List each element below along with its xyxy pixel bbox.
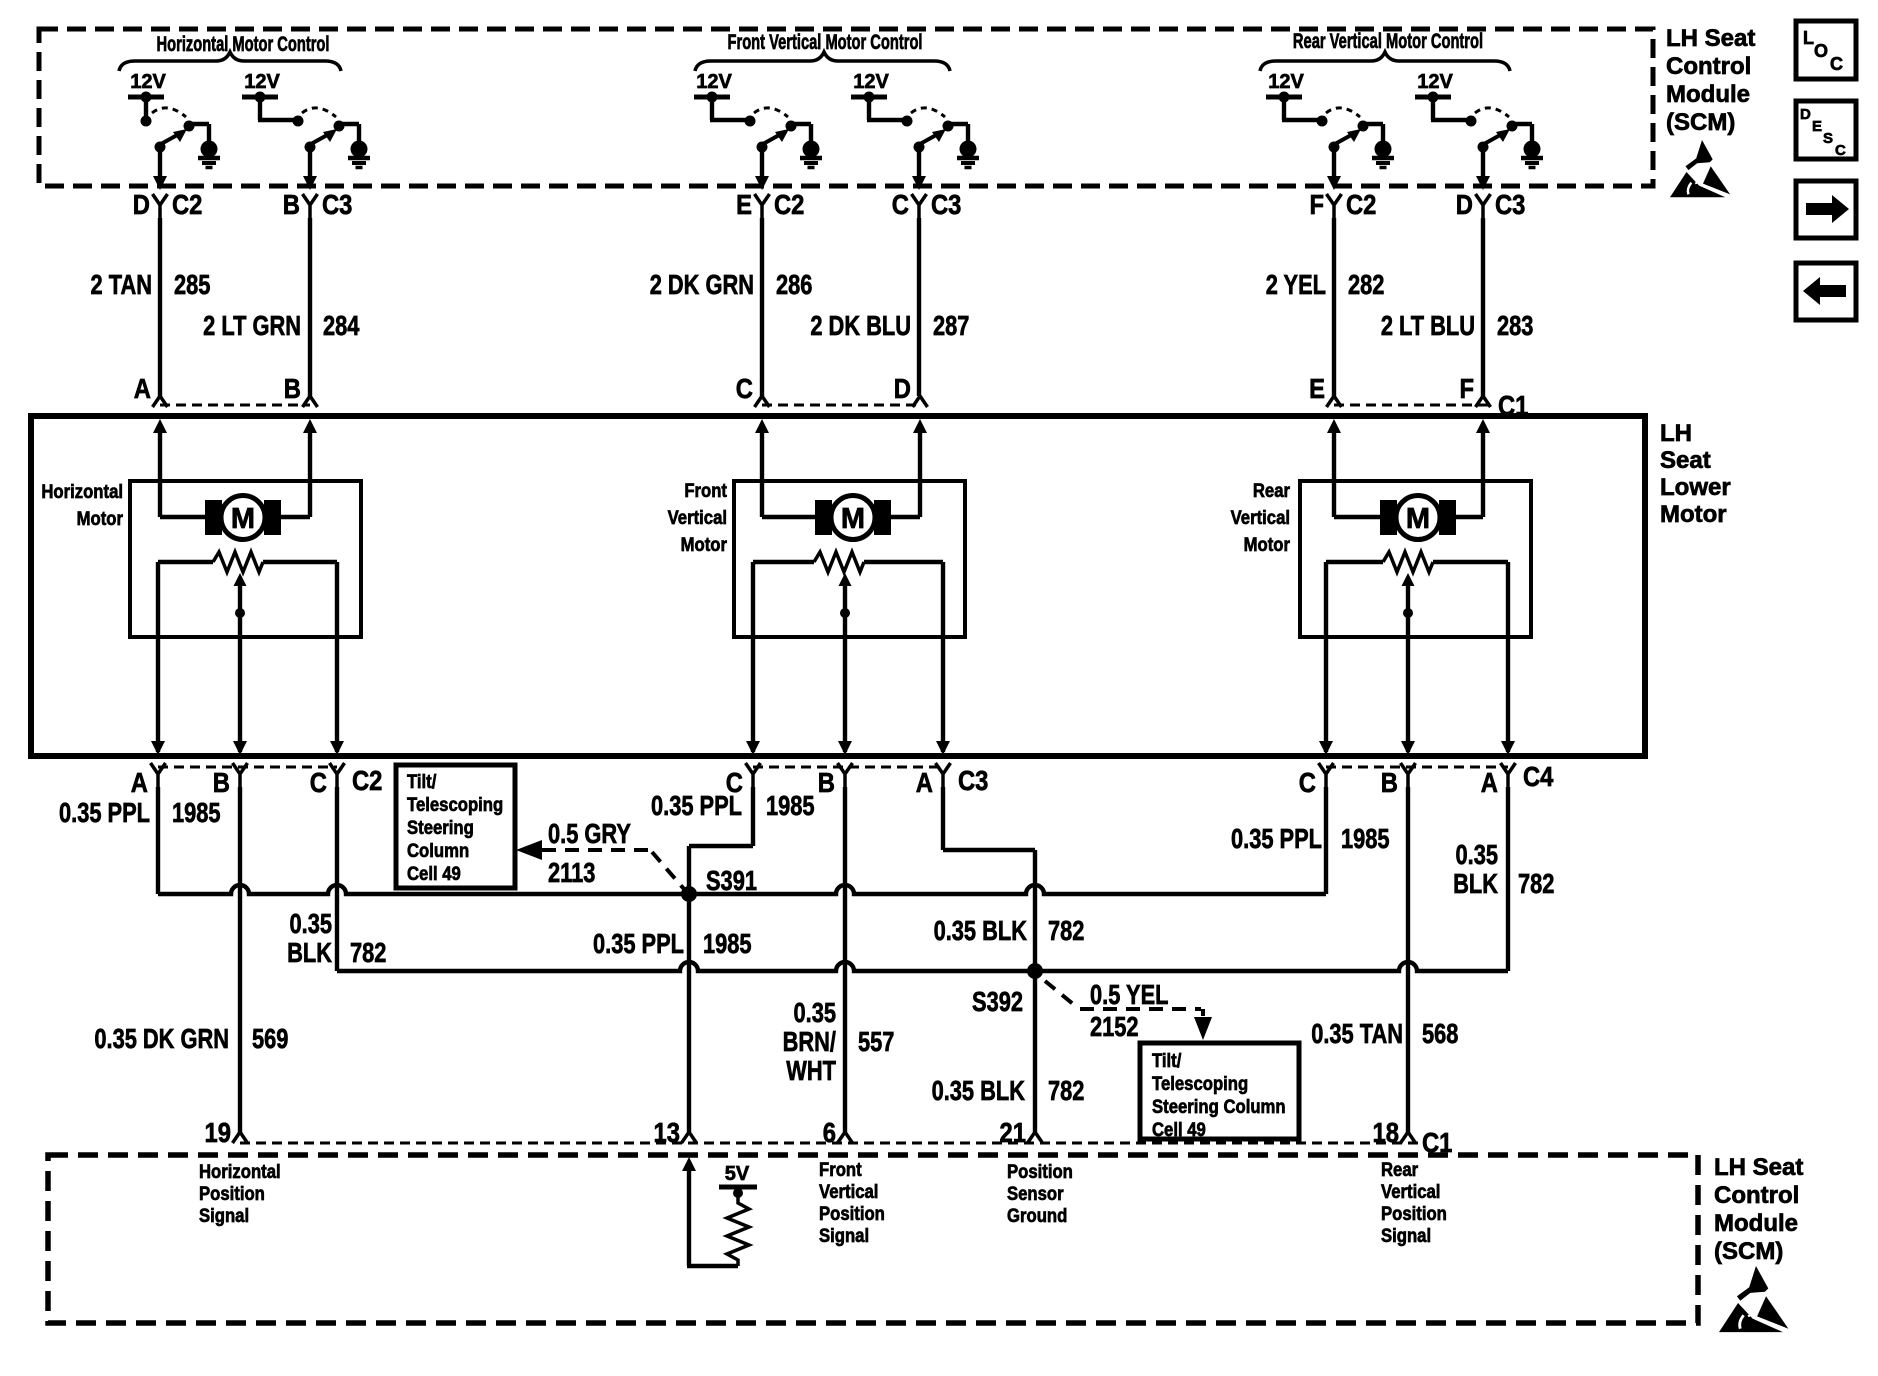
- wire 2 LT BLU 283: [1481, 218, 1485, 396]
- svg-text:2 LT BLU: 2 LT BLU: [1381, 310, 1475, 341]
- svg-text:Position: Position: [199, 1183, 265, 1204]
- svg-text:782: 782: [1048, 915, 1084, 946]
- svg-text:C: C: [736, 372, 753, 404]
- SCM pin 18: [1373, 1116, 1416, 1148]
- motor connector pin A: [1481, 763, 1516, 798]
- connector C1 dashed line top: [160, 404, 310, 407]
- 12V feed bar horizontal A: [128, 95, 164, 100]
- svg-text:C2: C2: [352, 764, 382, 796]
- svg-text:0.35 PPL: 0.35 PPL: [651, 790, 742, 821]
- svg-text:Rear: Rear: [1253, 480, 1290, 501]
- svg-text:LH: LH: [1660, 420, 1692, 447]
- svg-text:Telescoping: Telescoping: [407, 794, 503, 815]
- wire C3-C PPL jog: [751, 787, 755, 846]
- svg-text:Tilt/: Tilt/: [1152, 1050, 1181, 1071]
- wire 0.5 YEL 2152 off-page to steering column: [1045, 979, 1212, 1042]
- svg-text:(SCM): (SCM): [1714, 1238, 1783, 1265]
- svg-text:Motor: Motor: [1660, 501, 1727, 528]
- svg-text:B: B: [284, 372, 301, 404]
- svg-text:C3: C3: [322, 188, 352, 220]
- wire 0.35 DK GRN 569: [238, 787, 242, 1132]
- svg-text:Telescoping: Telescoping: [1152, 1073, 1248, 1094]
- motor connector pin E: [1309, 372, 1341, 407]
- SCM pin 21: [1000, 1116, 1043, 1148]
- splice S392: [1027, 963, 1043, 979]
- svg-text:Sensor: Sensor: [1007, 1183, 1064, 1204]
- motor connector pin B: [1381, 763, 1416, 798]
- motor horizontal motor: [205, 496, 281, 540]
- rear vertical motor sub-box: [1300, 481, 1531, 637]
- 12V feed bar front vertical A: [694, 95, 730, 100]
- svg-text:12V: 12V: [130, 71, 166, 93]
- svg-text:C3: C3: [958, 764, 988, 796]
- wire horizontal motor left supply: [158, 433, 162, 517]
- motor connector pin A: [131, 763, 166, 798]
- svg-text:2 LT GRN: 2 LT GRN: [203, 310, 301, 341]
- position sensor potentiometer rear vertical motor: [1383, 552, 1433, 572]
- svg-text:S392: S392: [972, 986, 1023, 1017]
- svg-text:Motor: Motor: [681, 534, 727, 555]
- svg-text:A: A: [916, 766, 933, 798]
- motor connector pin A: [916, 763, 951, 798]
- splice S391: [681, 886, 697, 902]
- switch horizontal B: [258, 97, 359, 190]
- label: Horizontal Motor: [41, 481, 123, 529]
- svg-text:284: 284: [323, 310, 359, 341]
- connector pin D C3: [1456, 188, 1526, 220]
- label: Front Vertical Position Signal: [819, 1159, 885, 1246]
- svg-text:283: 283: [1497, 310, 1533, 341]
- svg-text:Control: Control: [1666, 53, 1751, 80]
- label: Position Sensor Ground: [1007, 1161, 1073, 1226]
- svg-text:568: 568: [1422, 1018, 1458, 1049]
- svg-text:Vertical: Vertical: [1381, 1181, 1440, 1202]
- svg-text:Steering: Steering: [407, 817, 474, 838]
- svg-text:12V: 12V: [696, 71, 732, 93]
- wire rear vertical motor left supply: [1332, 433, 1336, 517]
- svg-text:Seat: Seat: [1660, 447, 1711, 474]
- connector pin B C3: [283, 188, 353, 220]
- svg-text:1985: 1985: [766, 790, 815, 821]
- wire S391 to pin 13: [687, 894, 691, 1132]
- svg-text:569: 569: [252, 1023, 288, 1054]
- wire 2 LT GRN 284: [308, 218, 312, 396]
- svg-text:782: 782: [350, 937, 386, 968]
- svg-text:287: 287: [933, 310, 969, 341]
- svg-text:Horizontal Motor Control: Horizontal Motor Control: [157, 32, 330, 55]
- label: Rear Vertical Motor: [1231, 480, 1290, 555]
- svg-text:E: E: [736, 188, 752, 220]
- position sensor potentiometer front vertical motor: [814, 552, 864, 572]
- motor connector pin A: [134, 372, 168, 407]
- brace: [695, 52, 950, 71]
- svg-text:B: B: [283, 188, 300, 220]
- SCM pin 19: [205, 1116, 248, 1148]
- svg-text:B: B: [1381, 766, 1398, 798]
- svg-text:C3: C3: [1495, 188, 1525, 220]
- svg-text:282: 282: [1348, 269, 1384, 300]
- svg-text:Horizontal: Horizontal: [199, 1161, 281, 1182]
- svg-text:Vertical: Vertical: [1231, 507, 1290, 528]
- svg-text:BLK: BLK: [287, 937, 332, 968]
- SCM pin 6: [823, 1116, 853, 1148]
- svg-text:0.35 PPL: 0.35 PPL: [59, 797, 150, 828]
- svg-text:Cell 49: Cell 49: [1152, 1119, 1206, 1140]
- wire 2 YEL 282: [1332, 218, 1336, 396]
- svg-text:C2: C2: [774, 188, 804, 220]
- wire front vertical motor left supply: [760, 433, 764, 517]
- ground front vertical A: [800, 141, 822, 168]
- motor connector pin C: [310, 763, 345, 798]
- svg-text:Control: Control: [1714, 1182, 1799, 1209]
- svg-text:Signal: Signal: [1381, 1225, 1431, 1246]
- connector pin E C2: [736, 188, 804, 220]
- 12V feed bar rear vertical A: [1266, 95, 1302, 100]
- svg-text:A: A: [134, 372, 151, 404]
- svg-text:2152: 2152: [1090, 1011, 1139, 1042]
- svg-text:D: D: [1800, 106, 1811, 123]
- wire rear vertical motor pot left end: [1326, 560, 1383, 564]
- motor connector pin B: [213, 763, 248, 798]
- svg-text:A: A: [131, 766, 148, 798]
- svg-text:0.35 DK GRN: 0.35 DK GRN: [94, 1023, 229, 1054]
- wiper front vertical motor: [839, 573, 852, 586]
- motor front vertical motor: [815, 496, 891, 540]
- wire rear vertical motor pot right end: [1433, 560, 1508, 564]
- svg-text:0.35 PPL: 0.35 PPL: [1231, 823, 1322, 854]
- svg-text:12V: 12V: [244, 71, 280, 93]
- label: Horizontal Position Signal: [199, 1161, 281, 1226]
- motor rear vertical motor: [1380, 496, 1456, 540]
- motor connector pin C: [1299, 763, 1334, 798]
- svg-text:Position: Position: [1381, 1203, 1447, 1224]
- label: LH Seat Lower Motor: [1660, 420, 1731, 528]
- svg-text:12V: 12V: [853, 71, 889, 93]
- connector C2 dashed line: [158, 766, 337, 769]
- motor connector pin F: [1459, 372, 1490, 407]
- svg-text:Column: Column: [407, 840, 469, 861]
- connector pin D C2: [133, 188, 203, 220]
- svg-text:Motor: Motor: [77, 508, 123, 529]
- svg-text:L: L: [1803, 28, 1814, 48]
- SCM bottom connector dashed line: [240, 1142, 1420, 1145]
- svg-text:D: D: [133, 188, 150, 220]
- svg-text:0.35: 0.35: [1456, 839, 1499, 870]
- svg-text:C: C: [892, 188, 909, 220]
- switch front vertical B: [867, 97, 968, 190]
- wire 2 TAN 285: [158, 218, 162, 396]
- svg-text:Front: Front: [684, 480, 727, 501]
- svg-text:Motor: Motor: [1244, 534, 1290, 555]
- svg-text:F: F: [1309, 188, 1324, 220]
- wire front vertical motor pot right end: [864, 560, 943, 564]
- svg-text:Vertical: Vertical: [819, 1181, 878, 1202]
- brace: [1260, 52, 1510, 71]
- ESD symbol top: [1670, 140, 1730, 197]
- wire front vertical motor pot left end: [753, 560, 814, 564]
- wire 2 DK BLU 287: [917, 218, 921, 396]
- 5V pull-up resistor inside SCM: [682, 1157, 757, 1266]
- wire front vertical motor right supply: [918, 433, 922, 517]
- svg-text:2 DK GRN: 2 DK GRN: [650, 269, 754, 300]
- LH Seat Control Module (SCM) top dashed box: [39, 29, 1653, 186]
- svg-text:S391: S391: [706, 865, 757, 896]
- svg-text:Lower: Lower: [1660, 474, 1731, 501]
- svg-text:WHT: WHT: [786, 1055, 836, 1086]
- motor connector pin B: [284, 372, 318, 407]
- svg-text:S: S: [1823, 130, 1833, 147]
- brace: [119, 52, 341, 71]
- svg-text:2 TAN: 2 TAN: [91, 269, 152, 300]
- svg-text:0.35 BLK: 0.35 BLK: [934, 915, 1027, 946]
- svg-text:B: B: [213, 766, 230, 798]
- svg-text:C: C: [1830, 54, 1843, 74]
- label: Front Vertical Motor: [668, 480, 727, 555]
- svg-text:C: C: [310, 766, 327, 798]
- svg-text:Steering Column: Steering Column: [1152, 1096, 1286, 1117]
- ground rear vertical A: [1372, 141, 1394, 168]
- wiper rear vertical motor: [1402, 573, 1415, 586]
- svg-text:BLK: BLK: [1453, 868, 1498, 899]
- svg-text:Position: Position: [1007, 1161, 1073, 1182]
- ground horizontal B: [348, 141, 370, 168]
- svg-text:E: E: [1309, 372, 1325, 404]
- svg-text:0.35 PPL: 0.35 PPL: [593, 928, 684, 959]
- svg-text:0.5 YEL: 0.5 YEL: [1090, 979, 1168, 1010]
- svg-text:C3: C3: [931, 188, 961, 220]
- SCM pin 13: [654, 1116, 697, 1148]
- Tilt/Telescoping Steering Column Cell 49 box 1: [396, 765, 515, 888]
- svg-text:D: D: [1456, 188, 1473, 220]
- svg-text:D: D: [894, 372, 911, 404]
- switch rear vertical B: [1431, 97, 1532, 190]
- svg-text:M: M: [1406, 503, 1430, 535]
- svg-text:2 DK BLU: 2 DK BLU: [810, 310, 911, 341]
- 12V feed bar rear vertical B: [1415, 95, 1451, 100]
- svg-text:(SCM): (SCM): [1666, 109, 1735, 136]
- LH Seat Lower Motor box: [31, 416, 1645, 756]
- wire 2 DK GRN 286: [760, 218, 764, 396]
- ESD symbol bottom: [1719, 1266, 1788, 1332]
- wire 0.35 PPL 1985 bus: [156, 787, 160, 894]
- motor connector pin C: [736, 372, 770, 407]
- svg-text:0.35 BLK: 0.35 BLK: [932, 1075, 1025, 1106]
- horizontal motor sub-box: [130, 481, 361, 637]
- svg-text:B: B: [818, 766, 835, 798]
- svg-text:Module: Module: [1666, 81, 1750, 108]
- svg-text:0.35: 0.35: [290, 908, 333, 939]
- motor connector pin D: [894, 372, 928, 407]
- svg-text:13: 13: [654, 1116, 680, 1148]
- svg-text:Ground: Ground: [1007, 1205, 1067, 1226]
- svg-text:Front: Front: [819, 1159, 862, 1180]
- svg-text:Module: Module: [1714, 1210, 1798, 1237]
- wire horizontal motor pot left end: [158, 560, 213, 564]
- label: LH Seat Control Module (SCM) bottom right: [1714, 1154, 1803, 1265]
- position sensor potentiometer horizontal motor: [213, 552, 263, 572]
- back arrow nav box: [1796, 263, 1856, 320]
- svg-text:782: 782: [1518, 868, 1554, 899]
- connector pin C C3: [892, 188, 962, 220]
- connector C4 dashed line: [1326, 766, 1508, 769]
- wire S392 to pin 21: [1033, 971, 1037, 1132]
- svg-text:M: M: [231, 503, 255, 535]
- svg-text:F: F: [1459, 372, 1474, 404]
- svg-text:1985: 1985: [703, 928, 752, 959]
- wire 0.35 BRN/WHT 557: [843, 787, 847, 1132]
- svg-text:5V: 5V: [725, 1163, 750, 1185]
- svg-text:21: 21: [1000, 1116, 1026, 1148]
- svg-text:19: 19: [205, 1116, 231, 1148]
- switch rear vertical A: [1282, 97, 1383, 190]
- svg-text:285: 285: [174, 269, 210, 300]
- svg-text:Rear: Rear: [1381, 1159, 1418, 1180]
- Tilt/Telescoping Steering Column Cell 49 box 2: [1140, 1043, 1299, 1139]
- svg-text:LH Seat: LH Seat: [1714, 1154, 1803, 1181]
- connector C3 dashed line: [753, 766, 943, 769]
- ground horizontal A: [198, 141, 220, 168]
- motor connector pin C: [726, 763, 761, 798]
- svg-text:C: C: [1299, 766, 1316, 798]
- svg-text:1985: 1985: [1341, 823, 1390, 854]
- svg-text:18: 18: [1373, 1116, 1399, 1148]
- wire horizontal motor pot right end: [263, 560, 337, 564]
- svg-text:2 YEL: 2 YEL: [1266, 269, 1326, 300]
- svg-text:1985: 1985: [172, 797, 221, 828]
- svg-text:A: A: [1481, 766, 1498, 798]
- svg-text:0.35 TAN: 0.35 TAN: [1311, 1018, 1403, 1049]
- switch front vertical A: [710, 97, 811, 190]
- svg-text:6: 6: [823, 1116, 836, 1148]
- wire 0.35 PPL 1985 bus right: [689, 885, 1326, 894]
- svg-text:Signal: Signal: [199, 1205, 249, 1226]
- svg-text:286: 286: [776, 269, 812, 300]
- forward arrow nav box: [1796, 181, 1856, 238]
- svg-text:Signal: Signal: [819, 1225, 869, 1246]
- svg-text:C4: C4: [1523, 760, 1554, 792]
- wire rear vertical motor right supply: [1481, 433, 1485, 517]
- svg-text:782: 782: [1048, 1075, 1084, 1106]
- motor connector pin B: [818, 763, 853, 798]
- DESC nav box: [1796, 101, 1856, 159]
- wire 0.5 GRY 2113 off-page to steering column: [516, 818, 684, 889]
- switch horizontal A: [141, 97, 210, 190]
- 12V feed bar horizontal B: [242, 95, 278, 100]
- svg-text:Cell 49: Cell 49: [407, 863, 461, 884]
- svg-text:O: O: [1814, 41, 1828, 61]
- wire 0.35 BLK 782 ground bus: [335, 787, 339, 971]
- wire 0.35 TAN 568: [1406, 787, 1410, 1132]
- wire 0.35 BLK 782 bus right: [1035, 962, 1508, 971]
- svg-text:Vertical: Vertical: [668, 507, 727, 528]
- svg-text:12V: 12V: [1268, 71, 1304, 93]
- svg-text:Position: Position: [819, 1203, 885, 1224]
- 12V feed bar front vertical B: [851, 95, 887, 100]
- ground rear vertical B: [1521, 141, 1543, 168]
- wire C3-A BLK jog: [941, 787, 945, 850]
- LOC nav box: [1796, 21, 1856, 79]
- svg-text:C2: C2: [172, 188, 202, 220]
- connector pin F C2: [1309, 188, 1376, 220]
- front vertical motor sub-box: [734, 481, 965, 637]
- svg-text:Horizontal: Horizontal: [41, 481, 123, 502]
- svg-text:C: C: [1835, 142, 1846, 159]
- wiper horizontal motor: [234, 573, 247, 586]
- svg-text:C2: C2: [1346, 188, 1376, 220]
- svg-text:0.5 GRY: 0.5 GRY: [548, 818, 631, 849]
- label: LH Seat Control Module (SCM) top right: [1666, 25, 1755, 136]
- svg-text:LH Seat: LH Seat: [1666, 25, 1755, 52]
- LH Seat Control Module (SCM) bottom dashed box: [48, 1155, 1698, 1323]
- ground front vertical B: [957, 141, 979, 168]
- svg-text:BRN/: BRN/: [783, 1026, 836, 1057]
- svg-text:557: 557: [858, 1026, 894, 1057]
- svg-text:2113: 2113: [548, 857, 595, 888]
- svg-text:12V: 12V: [1417, 71, 1453, 93]
- wire horizontal motor right supply: [308, 433, 312, 517]
- svg-text:Tilt/: Tilt/: [407, 771, 436, 792]
- svg-text:Rear Vertical Motor Control: Rear Vertical Motor Control: [1293, 29, 1483, 52]
- svg-text:E: E: [1812, 118, 1822, 135]
- label: Rear Vertical Position Signal: [1381, 1159, 1447, 1246]
- svg-text:0.35: 0.35: [794, 997, 837, 1028]
- svg-text:M: M: [841, 503, 865, 535]
